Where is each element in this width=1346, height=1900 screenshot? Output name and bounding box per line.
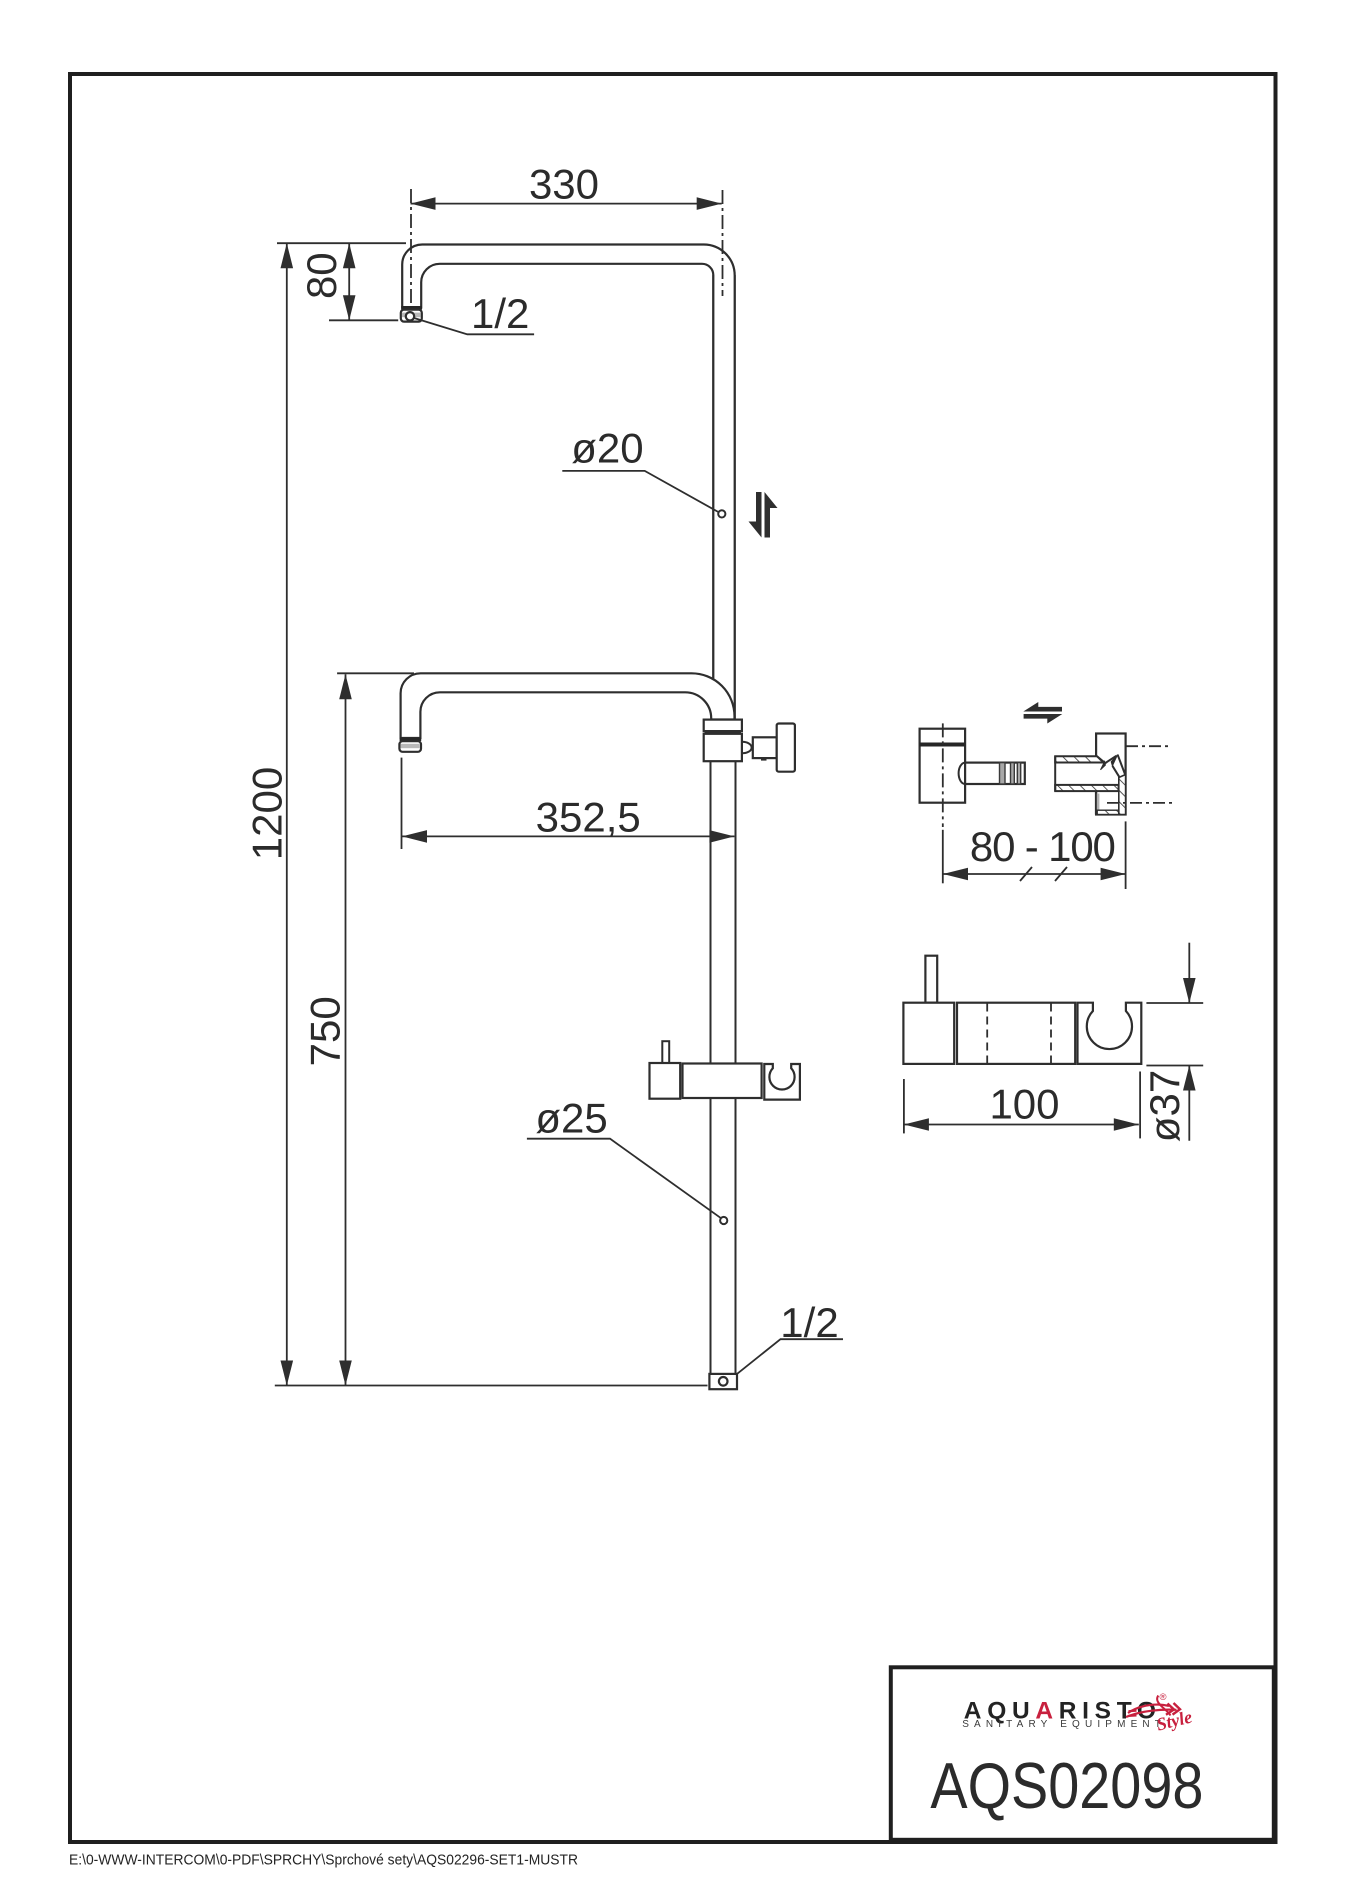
svg-text:352,5: 352,5 <box>536 794 641 841</box>
svg-text:ø20: ø20 <box>571 425 643 472</box>
svg-text:SANITARY EQUIPMENT: SANITARY EQUIPMENT <box>962 1719 1166 1730</box>
svg-text:80: 80 <box>298 252 345 299</box>
svg-text:®: ® <box>1160 1692 1167 1703</box>
svg-text:1200: 1200 <box>244 767 291 860</box>
svg-text:100: 100 <box>989 1081 1059 1128</box>
svg-text:E:\0-WWW-INTERCOM\0-PDF\SPRCHY: E:\0-WWW-INTERCOM\0-PDF\SPRCHY\Sprchové … <box>69 1853 578 1869</box>
svg-text:ø37: ø37 <box>1141 1070 1188 1142</box>
svg-text:80 - 100: 80 - 100 <box>970 823 1116 870</box>
svg-text:AQS02098: AQS02098 <box>930 1749 1203 1822</box>
svg-text:750: 750 <box>301 996 348 1066</box>
svg-text:330: 330 <box>529 161 599 208</box>
svg-text:ø25: ø25 <box>535 1095 607 1142</box>
svg-text:1/2: 1/2 <box>471 290 529 337</box>
